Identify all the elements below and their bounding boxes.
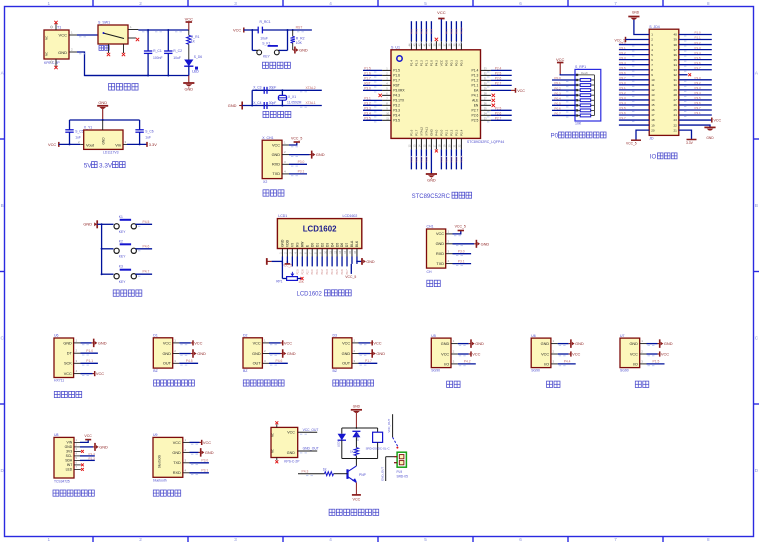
svg-text:P4.1: P4.1 <box>472 94 479 98</box>
svg-text:5: 5 <box>424 537 427 542</box>
capacitor R_C1 100nF <box>147 30 149 51</box>
svg-text:VCC: VCC <box>353 497 361 501</box>
svg-text:P0.3: P0.3 <box>554 91 561 95</box>
svg-text:VDD: VDD <box>286 239 290 247</box>
svg-text:X_C3: X_C3 <box>253 86 261 90</box>
title servo <box>547 381 553 387</box>
svg-text:P2.6: P2.6 <box>301 269 304 275</box>
svg-text:P1.3: P1.3 <box>695 46 702 50</box>
svg-text:VCC: VCC <box>472 352 480 357</box>
svg-text:7: 7 <box>614 1 617 6</box>
switch bottom pins no-connect <box>108 44 110 53</box>
3.3V output right <box>123 143 127 145</box>
VCC symbol MCU top <box>438 18 444 20</box>
svg-text:P0.6: P0.6 <box>341 269 344 275</box>
title bluetooth module <box>153 490 159 496</box>
svg-text:17: 17 <box>651 113 655 117</box>
svg-text:U8: U8 <box>54 433 59 437</box>
svg-text:GND: GND <box>629 342 638 346</box>
U5 pin3 net P4.2 <box>451 363 458 365</box>
svg-text:11.0592M: 11.0592M <box>287 101 302 105</box>
svg-text:P3.5: P3.5 <box>695 96 702 100</box>
svg-text:KPS-C-2P: KPS-C-2P <box>284 459 300 463</box>
wire top rail <box>138 29 188 31</box>
svg-text:P1.5: P1.5 <box>653 360 660 364</box>
svg-text:35: 35 <box>673 58 677 62</box>
svg-text:GND: GND <box>664 341 673 346</box>
switch S_SW1 <box>98 25 128 44</box>
svg-text:D2: D2 <box>320 243 324 247</box>
svg-text:P0.7: P0.7 <box>445 28 449 34</box>
svg-text:P2.5: P2.5 <box>472 119 479 123</box>
D2 pin3 net P4.6 <box>262 362 269 364</box>
svg-text:PL9: PL9 <box>397 470 403 474</box>
serial pin3 net P3.0 <box>446 253 453 255</box>
svg-text:D3: D3 <box>325 243 329 247</box>
svg-text:P1.4: P1.4 <box>410 60 414 67</box>
wire crystal left/bottom <box>242 105 322 107</box>
svg-text:S_C6: S_C6 <box>145 129 153 133</box>
svg-text:31: 31 <box>673 78 677 82</box>
IO pin20 to VCC_5 bottom <box>636 130 649 140</box>
svg-text:SG90: SG90 <box>620 369 629 373</box>
color pin5 net P1.3 <box>74 459 80 461</box>
svg-text:VCC: VCC <box>173 441 181 445</box>
weighing pin3 net P1.1 <box>74 362 81 364</box>
svg-text:D4: D4 <box>330 243 334 247</box>
svg-text:P0.4: P0.4 <box>430 28 434 34</box>
svg-text:X_CH1: X_CH1 <box>262 136 273 140</box>
svg-text:GND: GND <box>481 241 490 246</box>
svg-text:VCC_OUT: VCC_OUT <box>303 428 319 432</box>
svg-text:P2.1: P2.1 <box>445 129 449 136</box>
svg-text:GND: GND <box>172 451 181 455</box>
svg-text:KEY: KEY <box>263 54 271 58</box>
svg-text:P2.7: P2.7 <box>495 82 502 86</box>
svg-text:P2.0: P2.0 <box>620 41 627 45</box>
svg-text:GND: GND <box>353 405 361 409</box>
title servo <box>635 381 641 387</box>
switch pin2 no-connect <box>128 37 136 39</box>
svg-text:S_D6: S_D6 <box>194 55 202 59</box>
svg-text:P4.7: P4.7 <box>143 270 150 274</box>
svg-text:5: 5 <box>424 1 427 6</box>
svg-text:16: 16 <box>651 108 655 112</box>
svg-text:P3.3: P3.3 <box>393 109 400 113</box>
svg-text:bluetooth: bluetooth <box>153 479 167 483</box>
svg-text:14: 14 <box>651 98 655 102</box>
svg-text:28: 28 <box>673 93 677 97</box>
D3 pin1 to VCC <box>352 342 359 344</box>
svg-text:P2.9: P2.9 <box>455 157 459 163</box>
svg-text:KEY: KEY <box>119 280 126 284</box>
svg-text:GND: GND <box>436 242 445 246</box>
svg-text:39: 39 <box>673 38 677 42</box>
svg-text:18: 18 <box>651 118 655 122</box>
svg-text:U6: U6 <box>54 334 59 338</box>
svg-text:P1.2: P1.2 <box>420 60 424 67</box>
svg-text:P1.3: P1.3 <box>89 456 96 460</box>
wire left cap branch <box>69 120 71 130</box>
svg-text:P1.1: P1.1 <box>86 359 93 363</box>
svg-text:1: 1 <box>47 537 50 542</box>
svg-text:P3.1: P3.1 <box>695 111 702 115</box>
connector CH1 serial <box>427 229 446 268</box>
svg-text:6: 6 <box>519 1 522 6</box>
svg-text:GND: GND <box>376 351 385 356</box>
svg-text:X2: X2 <box>263 180 267 184</box>
svg-text:GND: GND <box>430 128 434 136</box>
svg-text:T1: T1 <box>57 26 61 30</box>
svg-text:P2.7: P2.7 <box>620 76 627 80</box>
no-connect bottom relay connector <box>276 458 278 461</box>
svg-text:P2.4: P2.4 <box>620 61 627 65</box>
svg-text:P3.1: P3.1 <box>298 170 305 174</box>
svg-text:P1.0: P1.0 <box>695 31 702 35</box>
svg-text:VCC: VCC <box>556 57 565 62</box>
D2 pin2 to GND <box>262 353 269 355</box>
svg-text:P2.3: P2.3 <box>620 56 627 60</box>
svg-text:GND: GND <box>63 341 72 345</box>
svg-text:P3.3: P3.3 <box>695 86 702 90</box>
svg-text:P1.6: P1.6 <box>393 74 400 78</box>
svg-text:3.3V: 3.3V <box>149 142 157 147</box>
D1 pin2 to GND <box>173 353 180 355</box>
title IR obstacle module <box>333 380 339 386</box>
svg-text:P3.1: P3.1 <box>458 259 465 263</box>
svg-text:P3.0RX: P3.0RX <box>393 89 405 93</box>
svg-text:S_K1: S_K1 <box>262 41 270 45</box>
svg-text:P2.6: P2.6 <box>620 71 627 75</box>
push button K1 <box>101 223 103 225</box>
svg-text:VCC: VCC <box>48 142 56 147</box>
svg-text:P1.1: P1.1 <box>620 86 627 90</box>
svg-text:P2.4: P2.4 <box>495 67 502 71</box>
svg-text:LED: LED <box>192 70 199 74</box>
svg-text:RP1: RP1 <box>276 280 282 284</box>
svg-text:24: 24 <box>673 113 677 117</box>
color pin7 no connect <box>74 468 81 470</box>
download pin2 to GND <box>282 154 289 156</box>
svg-text:P4.2: P4.2 <box>464 360 471 364</box>
svg-text:VCC_5: VCC_5 <box>345 275 356 279</box>
title IR obstacle module <box>243 380 249 386</box>
svg-text:P0.1: P0.1 <box>316 269 319 275</box>
svg-text:P2.5: P2.5 <box>620 66 627 70</box>
svg-text:P2.7: P2.7 <box>495 117 502 121</box>
svg-text:GND_OUT: GND_OUT <box>303 447 319 451</box>
serial pin1 to VCC_5 <box>446 233 453 235</box>
svg-text:D3: D3 <box>333 334 338 338</box>
resistor base 1K <box>334 473 348 475</box>
VCC symbol power rail <box>188 22 190 30</box>
svg-text:GND: GND <box>299 48 308 53</box>
svg-text:P0: P0 <box>551 132 559 139</box>
svg-text:3: 3 <box>234 537 237 542</box>
title key circuit <box>113 290 119 296</box>
U7 pin1 to GND <box>640 343 647 345</box>
VCC symbol pullup <box>559 63 561 75</box>
svg-text:P1.7: P1.7 <box>393 79 400 83</box>
connector X_CH1 download <box>262 140 282 178</box>
ground GND reset <box>292 43 294 50</box>
svg-text:S_SW1: S_SW1 <box>98 21 110 25</box>
svg-text:P1.3: P1.3 <box>415 60 419 67</box>
svg-text:LED: LED <box>66 468 73 472</box>
wire regulator top rail <box>70 119 140 121</box>
svg-text:TCS34725: TCS34725 <box>54 479 70 483</box>
svg-text:GND: GND <box>632 11 640 15</box>
svg-text:TXD: TXD <box>173 461 181 465</box>
color pin1 to VCC <box>74 441 80 443</box>
svg-text:7: 7 <box>614 537 617 542</box>
svg-text:VCC: VCC <box>233 28 241 33</box>
svg-text:P4.0: P4.0 <box>435 129 439 136</box>
svg-text:36: 36 <box>673 53 677 57</box>
svg-text:VCC: VCC <box>714 118 722 122</box>
wire VCC to RP1 common <box>560 73 577 76</box>
MCU left pins and wires <box>382 69 391 71</box>
svg-text:B: B <box>755 203 758 208</box>
D3 pin3 net P1.7 <box>352 362 359 364</box>
svg-text:33: 33 <box>673 68 677 72</box>
wire reset top <box>244 29 258 31</box>
svg-text:VCC: VCC <box>194 340 202 345</box>
svg-text:VCC: VCC <box>59 33 68 38</box>
svg-text:SG90: SG90 <box>531 369 540 373</box>
svg-text:32: 32 <box>673 73 677 77</box>
svg-text:EN: EN <box>474 104 479 108</box>
svg-text:P1.0: P1.0 <box>430 60 434 67</box>
svg-text:P2.5: P2.5 <box>495 107 502 111</box>
svg-text:P2.6: P2.6 <box>495 112 502 116</box>
svg-text:P3.5: P3.5 <box>393 119 400 123</box>
svg-text:VCC: VCC <box>284 340 292 345</box>
svg-text:LD1117V3: LD1117V3 <box>103 150 119 154</box>
svg-text:R_R2: R_R2 <box>296 36 305 40</box>
svg-text:K1: K1 <box>119 215 123 219</box>
svg-text:P2.1: P2.1 <box>415 157 419 163</box>
svg-text:P3.0: P3.0 <box>458 249 465 253</box>
svg-text:TXD: TXD <box>436 262 444 266</box>
svg-text:P2.8: P2.8 <box>450 157 454 163</box>
svg-text:Res8: Res8 <box>581 71 588 75</box>
svg-text:GND: GND <box>342 352 351 356</box>
svg-text:SCL: SCL <box>66 454 73 458</box>
svg-text:OUT: OUT <box>253 362 262 366</box>
pullup wires P0.0-P0.7 <box>552 79 576 81</box>
capacitor X_C4 30pF <box>263 102 265 109</box>
svg-text:P2.2: P2.2 <box>420 157 424 163</box>
push button S_K1 <box>251 30 253 50</box>
svg-text:38: 38 <box>673 43 677 47</box>
no-connect bottom of T1 <box>55 59 57 67</box>
wire relay top rail <box>342 427 378 429</box>
svg-text:1K: 1K <box>191 40 196 44</box>
svg-text:4: 4 <box>329 537 332 542</box>
svg-text:U6: U6 <box>531 334 536 338</box>
svg-text:VCC: VCC <box>185 16 194 21</box>
svg-text:JD: JD <box>649 137 654 141</box>
svg-text:P2.1: P2.1 <box>620 46 627 50</box>
ground GND MCU <box>430 173 432 175</box>
svg-text:RST: RST <box>393 84 400 88</box>
svg-text:GND: GND <box>281 239 285 247</box>
svg-text:NC: NC <box>271 433 275 437</box>
svg-text:VCC: VCC <box>661 352 669 357</box>
svg-text:GND: GND <box>98 341 107 346</box>
svg-text:GND: GND <box>706 136 714 140</box>
IO right wires <box>679 34 712 36</box>
svg-text:VCC: VCC <box>517 89 525 93</box>
svg-text:P2.5: P2.5 <box>495 72 502 76</box>
svg-text:P2.0: P2.0 <box>410 157 414 163</box>
relay contact arm <box>392 414 394 437</box>
svg-text:U7: U7 <box>620 334 625 338</box>
relay contact lower wire <box>385 457 387 481</box>
wire GND_OUT <box>298 450 318 452</box>
svg-text:P4.5: P4.5 <box>143 220 150 224</box>
D2 pin1 to VCC <box>262 342 269 344</box>
svg-text:DT: DT <box>67 352 73 356</box>
svg-text:GND: GND <box>287 351 296 356</box>
svg-text:VCC_OUT: VCC_OUT <box>387 419 391 433</box>
svg-text:I/O: I/O <box>633 362 638 366</box>
svg-text:K2: K2 <box>119 239 123 243</box>
svg-text:P3.1TX: P3.1TX <box>393 99 405 103</box>
D1 pin1 to VCC <box>173 342 180 344</box>
svg-text:25: 25 <box>673 108 677 112</box>
svg-text:VCC: VCC <box>96 371 104 376</box>
regulator GND pin stub <box>102 120 104 130</box>
svg-text:P2.2: P2.2 <box>450 129 454 136</box>
svg-text:P0.7: P0.7 <box>346 269 349 275</box>
capacitor S_C5 1uF <box>65 129 73 131</box>
weighing pin4 to VCC <box>74 373 81 375</box>
svg-text:P1.3: P1.3 <box>472 74 479 78</box>
svg-text:P3.2: P3.2 <box>364 102 371 106</box>
download pin3 net P3.0 <box>282 163 289 165</box>
download pin4 net P3.1 <box>282 173 289 175</box>
svg-text:P0.8: P0.8 <box>450 28 454 34</box>
svg-text:P0.1: P0.1 <box>450 60 454 67</box>
svg-text:30pF: 30pF <box>269 86 277 90</box>
IO left wires <box>619 44 649 46</box>
svg-text:OUT: OUT <box>163 362 172 366</box>
capacitor X_C3 30pF <box>263 87 265 94</box>
svg-text:11: 11 <box>651 83 654 87</box>
svg-text:P0.2: P0.2 <box>321 269 324 275</box>
svg-text:10K: 10K <box>296 41 303 45</box>
svg-text:20: 20 <box>651 128 655 132</box>
svg-text:VCC: VCC <box>163 341 171 345</box>
svg-text:P3.0: P3.0 <box>201 459 208 463</box>
push button K2 <box>101 248 103 250</box>
svg-text:6: 6 <box>519 537 522 542</box>
svg-text:P0.4: P0.4 <box>554 96 561 100</box>
svg-text:VCC: VCC <box>437 10 446 15</box>
svg-text:P2.3: P2.3 <box>425 157 429 163</box>
wire crystal top <box>252 89 322 91</box>
LCD pins <box>281 249 283 257</box>
svg-text:BLK: BLK <box>355 240 359 247</box>
title power circuit <box>109 84 115 91</box>
svg-text:P4.3: P4.3 <box>393 94 400 98</box>
svg-text:R_RC1: R_RC1 <box>260 20 271 24</box>
weighing pin1 to GND <box>74 342 81 344</box>
svg-text:VCC: VCC <box>64 372 72 376</box>
svg-text:P1.6: P1.6 <box>695 61 702 65</box>
svg-text:GND: GND <box>205 450 214 455</box>
svg-text:21: 21 <box>673 128 677 132</box>
svg-text:P4.4: P4.4 <box>564 360 571 364</box>
svg-text:29: 29 <box>673 88 677 92</box>
svg-text:3: 3 <box>234 1 237 6</box>
svg-text:GND: GND <box>287 451 295 455</box>
svg-text:P3.2: P3.2 <box>695 81 702 85</box>
svg-text:GND: GND <box>162 352 171 356</box>
svg-text:B: B <box>1 203 4 208</box>
svg-text:GND: GND <box>102 137 106 145</box>
svg-text:Vout: Vout <box>86 142 95 147</box>
svg-text:P1.2: P1.2 <box>620 91 627 95</box>
svg-text:PNP: PNP <box>359 473 367 477</box>
title reset circuit <box>263 62 269 68</box>
svg-text:P0.2: P0.2 <box>554 86 561 90</box>
svg-text:P1.5: P1.5 <box>364 67 371 71</box>
wire right cap branch <box>139 120 141 130</box>
serial pin2 to GND <box>446 243 453 245</box>
svg-text:P1.7: P1.7 <box>365 359 372 363</box>
svg-text:P3.4: P3.4 <box>695 91 702 95</box>
LCD pin2 bar <box>285 263 291 265</box>
no-connect top relay connector <box>276 424 278 427</box>
svg-text:CH: CH <box>427 270 433 274</box>
LCD right GND port <box>356 260 362 262</box>
title IR obstacle module <box>154 380 160 386</box>
svg-text:SRD-05VDC-SL-C: SRD-05VDC-SL-C <box>366 447 390 451</box>
power connector T1 <box>44 30 69 59</box>
svg-text:2: 2 <box>139 1 142 6</box>
wire VCC_OUT <box>298 431 318 433</box>
svg-text:P2.6: P2.6 <box>472 114 479 118</box>
wire bottom rail <box>85 75 189 77</box>
svg-text:GND: GND <box>58 50 67 55</box>
svg-text:P2.7: P2.7 <box>306 269 309 275</box>
ground GND power circuit <box>188 76 190 84</box>
capacitor R_C2 10uF <box>167 30 169 51</box>
svg-text:U5: U5 <box>431 334 436 338</box>
svg-text:GND: GND <box>99 445 108 450</box>
svg-text:1: 1 <box>47 1 50 6</box>
D1 pin3 net P4.5 <box>173 362 180 364</box>
svg-text:R_R1: R_R1 <box>191 35 200 39</box>
IO pin21 to 3.3V bottom <box>679 130 692 139</box>
svg-text:KEY: KEY <box>119 254 126 258</box>
svg-text:3V3: 3V3 <box>66 450 72 454</box>
U5 pin1 to GND <box>451 343 458 345</box>
ground GND IO right <box>679 125 710 127</box>
connector U9 bluetooth <box>153 437 183 477</box>
svg-text:P0.5: P0.5 <box>336 269 339 275</box>
svg-text:P1.5: P1.5 <box>620 106 627 110</box>
svg-text:NC: NC <box>271 449 275 453</box>
svg-text:P0.10: P0.10 <box>460 27 464 34</box>
connector D2 IR obstacle <box>243 338 262 368</box>
bluetooth pin2 to GND <box>183 451 190 453</box>
VCC IO right <box>679 119 712 121</box>
transistor Q PNP <box>355 459 357 466</box>
